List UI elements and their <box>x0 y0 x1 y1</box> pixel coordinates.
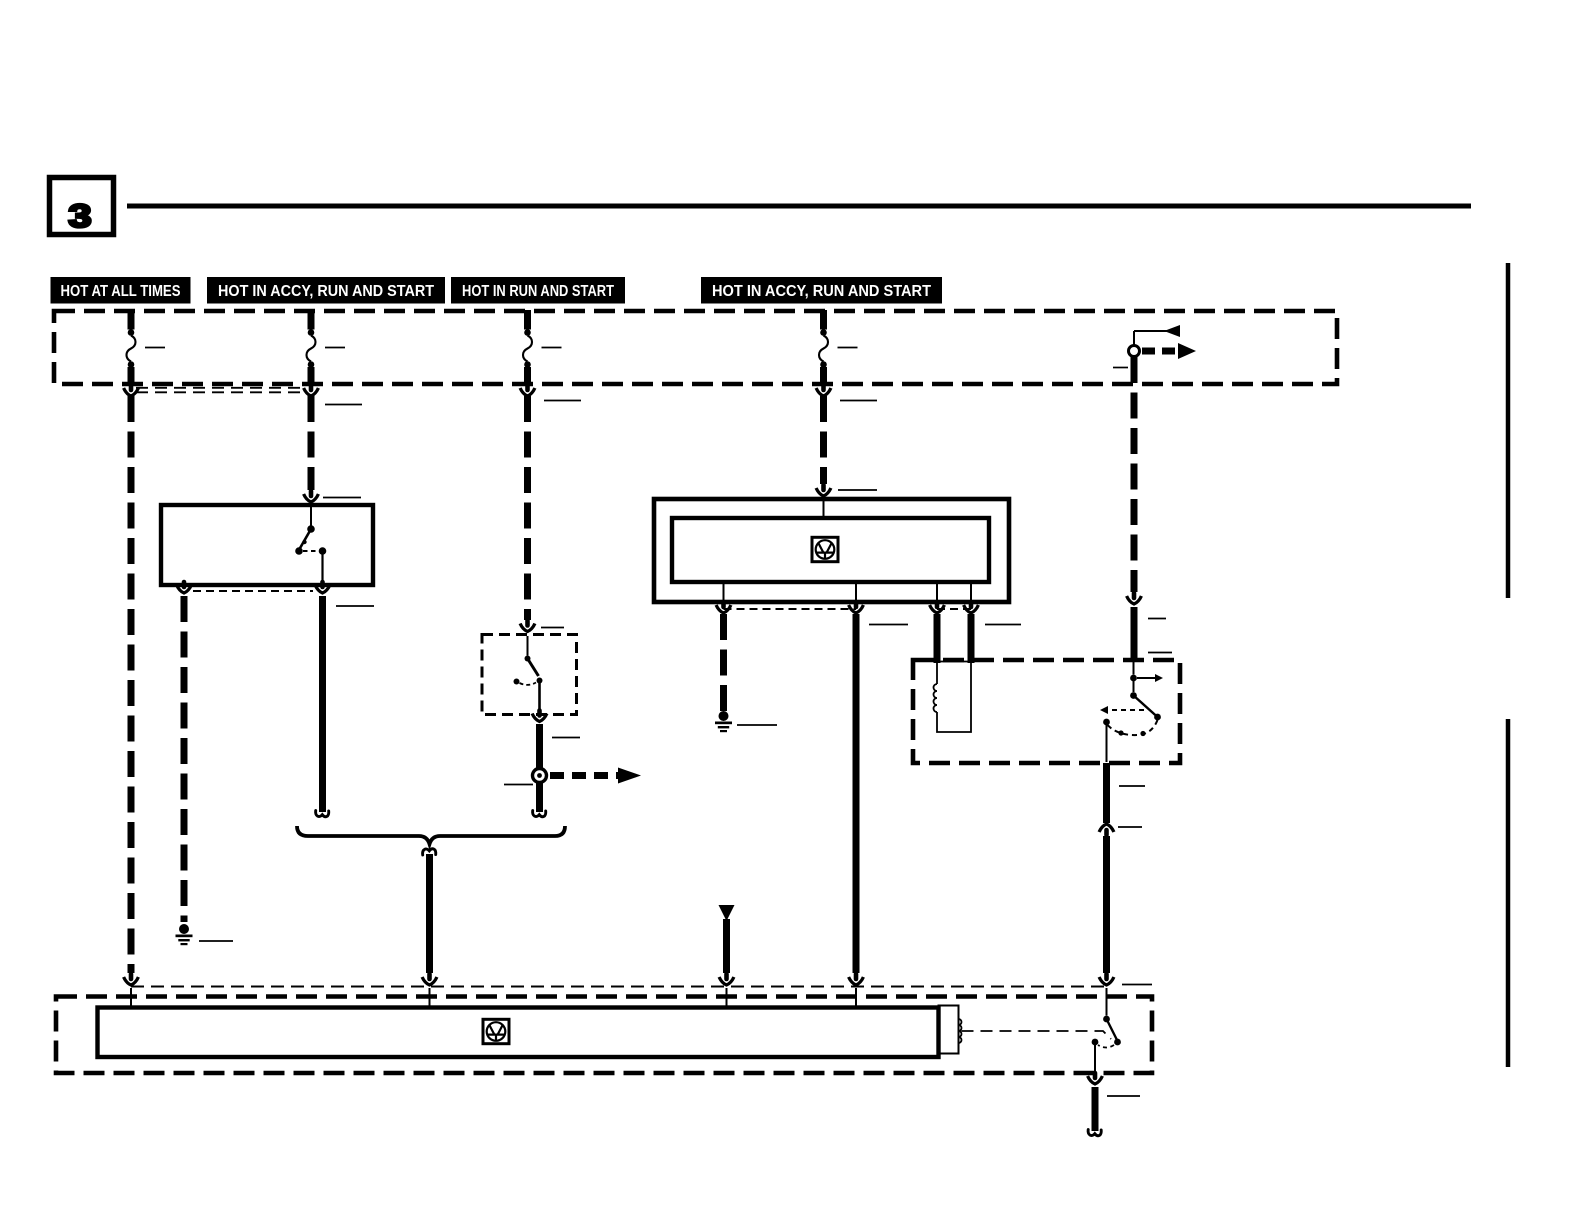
svg-text:HOT IN ACCY, RUN AND START: HOT IN ACCY, RUN AND START <box>712 283 931 300</box>
svg-text:HOT IN RUN AND START: HOT IN RUN AND START <box>462 283 614 300</box>
svg-text:HOT AT ALL TIMES: HOT AT ALL TIMES <box>61 283 181 300</box>
svg-text:3: 3 <box>68 198 91 234</box>
svg-text:HOT IN ACCY, RUN AND START: HOT IN ACCY, RUN AND START <box>218 283 434 300</box>
